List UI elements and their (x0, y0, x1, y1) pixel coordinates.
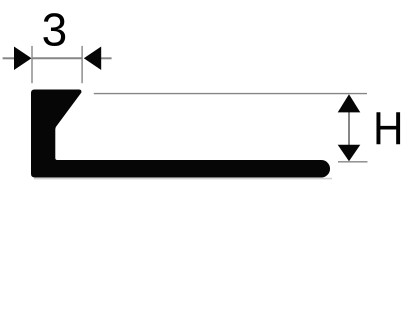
dim-3 tail left (3, 57, 15, 59)
L-profile cross-section (31, 90, 330, 178)
svg-text:3: 3 (42, 4, 68, 56)
svg-text:H: H (373, 104, 404, 155)
dim-3 tail right (100, 57, 112, 59)
dim-H shaft (348, 110, 350, 147)
dim-3 arrow right (84, 47, 101, 71)
dim-3 extension line left (31, 46, 33, 83)
dim-3 line (32, 57, 82, 59)
dim-3 extension line right (81, 46, 83, 83)
dim-3 arrow left (14, 47, 32, 71)
dim-H bottom extension line (338, 161, 368, 163)
profile bottom edge soft fringe (34, 178, 332, 180)
dim-H arrow down (338, 145, 361, 162)
dim-H top extension line (94, 93, 367, 95)
dim-H arrow up (338, 94, 361, 112)
